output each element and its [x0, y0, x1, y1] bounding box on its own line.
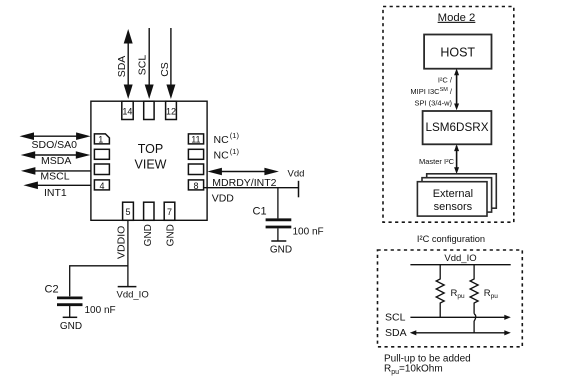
pin 9 (unlabeled) [188, 164, 203, 175]
svg-text:NC: NC [214, 150, 230, 162]
capacitor C1 [266, 218, 292, 221]
svg-text:1: 1 [98, 135, 103, 145]
svg-text:4: 4 [99, 181, 104, 191]
svg-text:SCL: SCL [136, 55, 148, 76]
pin 13 (unlabeled) [144, 101, 154, 119]
block LSM6DSRX [423, 111, 492, 144]
node Vdd_IO terminal bar [118, 286, 137, 288]
svg-text:I²C configuration: I²C configuration [417, 234, 485, 244]
wire MSDA arrow (bidirectional) [32, 154, 78, 156]
I2C configuration dashed frame [378, 250, 523, 347]
svg-text:11: 11 [191, 135, 200, 145]
wire hop over SCL then to SDA [474, 314, 476, 333]
pin 5 [123, 202, 134, 220]
svg-text:MSDA: MSDA [41, 155, 71, 167]
wire MDRDY/INT2 arrow (bidirectional) [220, 171, 266, 173]
ground (C1) [271, 240, 286, 242]
pin 1 (chamfered) [94, 134, 109, 144]
svg-text:Master I²C: Master I²C [419, 157, 455, 166]
svg-text:NC: NC [214, 134, 230, 146]
svg-text:sensors: sensors [434, 201, 473, 213]
svg-text:VIEW: VIEW [135, 158, 167, 172]
Mode 2 dashed frame [383, 7, 514, 223]
pin 7 [164, 202, 175, 220]
svg-text:GND: GND [165, 224, 176, 246]
svg-text:7: 7 [167, 207, 172, 217]
svg-text:SDA: SDA [385, 327, 407, 339]
resistor Rpu (SCL) [436, 265, 444, 318]
pin 3 (unlabeled) [94, 164, 109, 175]
svg-text:Vdd_IO: Vdd_IO [444, 253, 476, 264]
wire INT1 arrow (left) [36, 184, 91, 186]
pin 14 [122, 101, 133, 119]
wire VDD to Vdd terminal [204, 187, 299, 189]
wire C2 to gnd [69, 306, 71, 317]
svg-text:INT1: INT1 [44, 187, 67, 199]
svg-text:VDD: VDD [212, 192, 235, 204]
wire Vdd_IO rail [410, 264, 510, 266]
svg-text:SDO/SA0: SDO/SA0 [32, 139, 78, 151]
block HOST [424, 35, 491, 69]
svg-text:Mode 2: Mode 2 [438, 12, 476, 24]
pin 6 (unlabeled) [144, 202, 154, 220]
svg-text:SDA: SDA [116, 56, 128, 78]
ground (C2) [63, 316, 77, 318]
svg-text:8: 8 [193, 181, 198, 191]
svg-text:MSCL: MSCL [40, 171, 69, 183]
pin 4 [94, 180, 109, 190]
block External sensors (front) [417, 182, 487, 216]
resistor Rpu (SDA) [470, 265, 478, 314]
wire pin5 down to Vdd_IO terminal [127, 220, 129, 286]
svg-text:GND: GND [270, 245, 292, 256]
svg-text:GND: GND [60, 321, 82, 332]
wire LSM6DSRX-sensors arrow [456, 146, 458, 171]
pin 2 (unlabeled) [94, 149, 109, 159]
svg-text:I²C /: I²C / [438, 76, 453, 85]
svg-text:C1: C1 [253, 206, 267, 218]
wire branch to C2 [70, 266, 128, 297]
wire to C1 [277, 188, 279, 219]
svg-text:HOST: HOST [440, 46, 475, 60]
svg-text:External: External [433, 188, 473, 200]
block External sensors (stack middle) [422, 178, 492, 212]
svg-text:5: 5 [125, 207, 130, 217]
wire C1 to gnd [277, 228, 279, 241]
wire SCL arrow (down) [148, 28, 150, 86]
svg-text:Vdd_IO: Vdd_IO [117, 290, 149, 301]
svg-text:(1): (1) [230, 131, 240, 140]
pin 11 [188, 134, 203, 144]
svg-text:GND: GND [143, 224, 154, 246]
svg-text:VDDIO: VDDIO [115, 226, 127, 259]
svg-text:TOP: TOP [138, 142, 163, 156]
wire CS arrow (down) [170, 28, 172, 86]
chip body TOP VIEW [91, 101, 207, 220]
wire HOST-LSM6DSRX arrow [456, 71, 458, 108]
svg-text:100 nF: 100 nF [293, 227, 324, 238]
svg-text:14: 14 [122, 107, 132, 117]
svg-text:(1): (1) [230, 147, 240, 156]
wire SDA arrow (bidirectional) [127, 41, 129, 86]
svg-text:SPI (3/4-w): SPI (3/4-w) [414, 99, 452, 108]
svg-text:CS: CS [159, 62, 171, 77]
svg-text:100 nF: 100 nF [85, 305, 116, 316]
pin 8 [188, 180, 203, 190]
svg-text:C2: C2 [45, 284, 59, 296]
pin 12 [166, 101, 177, 119]
svg-text:12: 12 [166, 107, 176, 117]
wire SDO/SA0 arrow (bidirectional) [30, 135, 80, 137]
block External sensors (stack back) [427, 174, 497, 208]
capacitor C2 [57, 296, 83, 299]
svg-text:Vdd: Vdd [288, 169, 305, 180]
svg-text:SCL: SCL [385, 311, 406, 323]
wire SDA bidirectional arrow [415, 332, 507, 334]
pin 10 (unlabeled) [188, 149, 203, 159]
wire SCL with right arrow [410, 316, 506, 318]
svg-text:LSM6DSRX: LSM6DSRX [425, 121, 488, 134]
wire MSCL arrow (left) [33, 170, 91, 172]
node Vdd terminal bar [298, 181, 300, 198]
